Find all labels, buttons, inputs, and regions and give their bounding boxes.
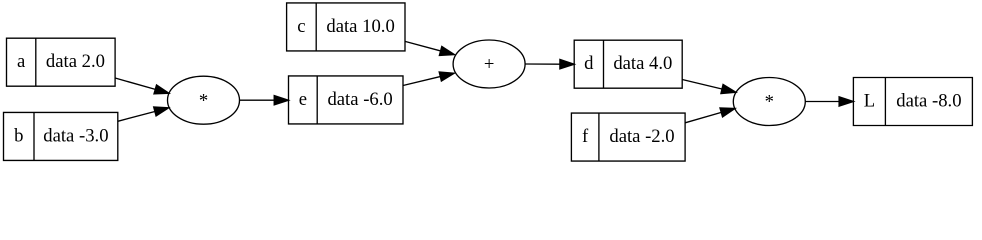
- svg-text:+: +: [484, 54, 495, 75]
- wire f&#8594;*: [685, 108, 735, 123]
- svg-text:data -6.0: data -6.0: [327, 89, 392, 110]
- svg-text:a: a: [17, 51, 26, 72]
- op-node + (plus): [453, 40, 525, 88]
- node L: [853, 78, 972, 126]
- wire +&#8594;d: [525, 59, 574, 68]
- svg-text:b: b: [14, 125, 23, 146]
- wire d&#8594;*: [682, 80, 736, 94]
- svg-text:f: f: [582, 126, 589, 147]
- node b: [4, 112, 118, 160]
- svg-text:*: *: [199, 90, 208, 111]
- node d: [574, 40, 682, 88]
- node c: [287, 3, 405, 51]
- node e: [289, 76, 404, 124]
- svg-text:c: c: [297, 16, 305, 37]
- wire *&#8594;L: [805, 97, 853, 106]
- op-node * (mul2): [733, 78, 805, 126]
- svg-text:d: d: [584, 53, 594, 74]
- svg-text:e: e: [299, 89, 307, 110]
- svg-text:data -8.0: data -8.0: [896, 90, 961, 111]
- wire *&#8594;e: [240, 96, 289, 105]
- svg-text:data -3.0: data -3.0: [43, 125, 108, 146]
- svg-text:data 2.0: data 2.0: [46, 51, 105, 72]
- wire c&#8594;+: [405, 41, 454, 55]
- svg-text:*: *: [765, 92, 774, 113]
- op-node * (mul1): [168, 76, 240, 124]
- wire e&#8594;+: [403, 72, 454, 86]
- node f: [571, 113, 685, 161]
- svg-text:data 10.0: data 10.0: [326, 16, 394, 37]
- svg-text:data -2.0: data -2.0: [609, 126, 674, 147]
- svg-text:L: L: [864, 90, 875, 111]
- svg-text:data 4.0: data 4.0: [613, 53, 672, 74]
- wire b&#8594;*: [118, 107, 169, 121]
- node a: [7, 38, 116, 86]
- wire a&#8594;*: [115, 78, 169, 94]
